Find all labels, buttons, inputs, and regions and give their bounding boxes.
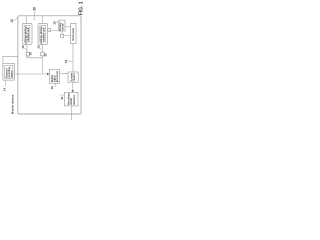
port square 1 xyxy=(26,52,29,56)
svg-text:control: control xyxy=(73,73,76,81)
wire controller to memory with arrowhead xyxy=(72,82,74,91)
image processor label xyxy=(51,71,59,82)
svg-text:interface: interface xyxy=(73,94,76,104)
image processor box 38 xyxy=(49,69,59,83)
transceiver box 32 xyxy=(71,23,77,43)
camera module 2 outer xyxy=(38,23,48,44)
controller label xyxy=(71,73,77,81)
svg-text:Transceiver: Transceiver xyxy=(73,28,75,41)
svg-text:Digital: Digital xyxy=(51,75,54,82)
svg-text:FIG. 1: FIG. 1 xyxy=(79,1,83,15)
svg-text:Mobile device: Mobile device xyxy=(11,94,15,114)
wire border to camera module 1 xyxy=(25,16,27,23)
svg-text:14: 14 xyxy=(2,88,6,92)
outer enclosure box 10 xyxy=(18,16,81,114)
svg-text:element unit: element unit xyxy=(27,27,30,41)
memory label xyxy=(68,93,76,105)
svg-text:20: 20 xyxy=(28,52,32,56)
svg-text:processor: processor xyxy=(57,71,59,82)
wire port to processor xyxy=(51,29,59,31)
camera module 1 outer xyxy=(22,23,32,44)
camera module 2 label xyxy=(41,26,46,41)
camera module 2 inner sensor xyxy=(40,25,46,42)
svg-text:Recording: Recording xyxy=(68,93,70,105)
svg-text:circuit: circuit xyxy=(62,23,65,30)
svg-text:media: media xyxy=(71,97,73,104)
leader for 34 xyxy=(67,61,73,62)
wire image processor to controller xyxy=(59,73,68,75)
leader for label 10 xyxy=(14,18,18,21)
processor label xyxy=(60,22,64,31)
svg-text:22: 22 xyxy=(43,53,47,57)
controller box 36 xyxy=(68,72,78,82)
svg-text:Image pickup: Image pickup xyxy=(25,26,27,41)
wire border loop to external box xyxy=(3,56,18,63)
wire port to transceiver xyxy=(64,35,71,37)
main arrow into image processor xyxy=(15,73,48,75)
memory box 42 xyxy=(64,92,78,106)
label 40 squiggle xyxy=(54,83,55,87)
svg-text:System: System xyxy=(71,73,74,81)
port square on camera module 2 right xyxy=(48,29,51,32)
svg-text:42: 42 xyxy=(60,96,64,100)
label 42 with tilde leader xyxy=(60,94,64,97)
leader for 14 xyxy=(5,80,6,86)
wire module1 to port1 xyxy=(26,44,28,52)
svg-text:30: 30 xyxy=(33,7,37,11)
wire memory exit through bottom border xyxy=(70,106,72,120)
port square 2 xyxy=(41,52,44,56)
wire module2 to port2 xyxy=(41,44,43,52)
svg-text:40: 40 xyxy=(50,86,54,90)
svg-text:10: 10 xyxy=(10,19,14,23)
port square below processor xyxy=(61,31,63,34)
wire transceiver to controller xyxy=(72,44,74,73)
leader for 26 xyxy=(56,21,59,23)
svg-text:device: device xyxy=(11,70,13,78)
external device label xyxy=(5,66,13,77)
svg-text:34: 34 xyxy=(64,60,68,64)
wire processor to transceiver top xyxy=(65,26,71,28)
camera bus wire xyxy=(27,56,43,74)
processor box 26 xyxy=(59,20,65,31)
leader for label 30 xyxy=(33,11,35,20)
wire border to camera module 2 xyxy=(42,16,44,23)
svg-text:element unit: element unit xyxy=(43,27,46,41)
camera module 1 label xyxy=(25,26,30,41)
camera module 1 inner sensor xyxy=(24,25,30,42)
svg-text:Image pickup: Image pickup xyxy=(41,26,43,41)
external device box 12 xyxy=(3,64,15,81)
